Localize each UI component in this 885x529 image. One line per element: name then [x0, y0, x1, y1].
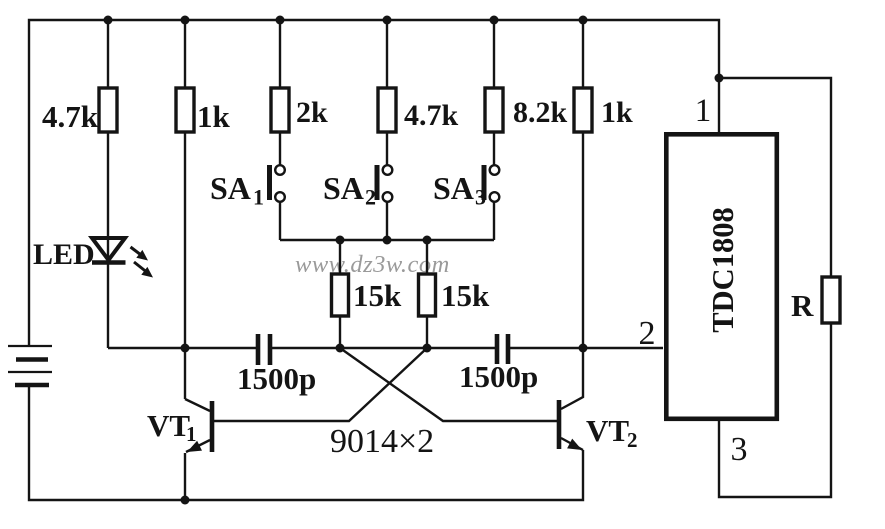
svg-text:LED: LED	[33, 238, 95, 271]
svg-text:1: 1	[695, 93, 712, 129]
svg-text:4.7k: 4.7k	[42, 99, 99, 134]
svg-text:1500p: 1500p	[459, 359, 538, 394]
svg-text:15k: 15k	[353, 278, 402, 313]
svg-text:VT: VT	[147, 408, 190, 443]
svg-text:SA: SA	[323, 170, 364, 206]
svg-text:1k: 1k	[197, 99, 231, 134]
svg-text:9014×2: 9014×2	[330, 423, 434, 460]
svg-text:TDC1808: TDC1808	[706, 207, 740, 332]
svg-text:1: 1	[186, 422, 197, 446]
svg-text:VT: VT	[586, 413, 629, 448]
svg-text:3: 3	[475, 185, 486, 210]
svg-text:2: 2	[639, 315, 656, 352]
svg-text:SA: SA	[433, 170, 474, 206]
svg-text:2: 2	[627, 428, 638, 452]
svg-text:1: 1	[253, 185, 264, 210]
svg-text:SA: SA	[210, 170, 251, 206]
svg-text:3: 3	[731, 431, 748, 468]
svg-text:15k: 15k	[441, 278, 490, 313]
svg-text:2k: 2k	[296, 96, 328, 129]
svg-text:2: 2	[365, 185, 376, 210]
svg-text:4.7k: 4.7k	[404, 99, 459, 132]
svg-text:1k: 1k	[601, 96, 633, 129]
svg-text:R: R	[791, 288, 814, 323]
svg-text:8.2k: 8.2k	[513, 96, 568, 129]
svg-text:1500p: 1500p	[237, 361, 316, 396]
